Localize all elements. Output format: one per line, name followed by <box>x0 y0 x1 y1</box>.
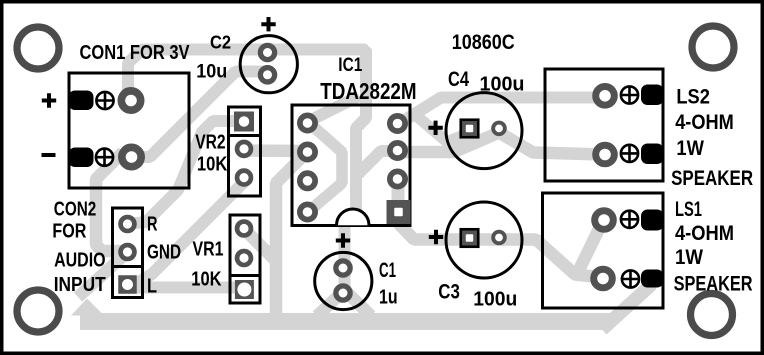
svg-text:10u: 10u <box>196 61 227 82</box>
wire VR2 top pad to CON2 R pad <box>127 121 242 224</box>
op-amp IC1 body <box>292 105 410 226</box>
svg-text:GND: GND <box>147 241 181 263</box>
speaker connector LS2 body <box>545 69 663 181</box>
LS2 top screw cross <box>621 86 638 103</box>
LS1 bottom black pad <box>641 270 664 288</box>
wire branch up to LS1 top pad <box>578 222 604 272</box>
CON1 plus hole pad <box>118 87 145 114</box>
wire IC1 right pad 1 to LS2 top pad <box>397 98 604 126</box>
speaker connector LS1 body <box>543 193 664 308</box>
connector CON1 body <box>69 73 189 188</box>
wire CON2 GND riser to ground band <box>78 253 127 298</box>
svg-text:LS1: LS1 <box>675 197 702 221</box>
LS1 pad top <box>591 207 617 233</box>
wire C1 tent right leg to ground band <box>345 290 372 316</box>
svg-text:1W: 1W <box>676 136 704 160</box>
capacitor C1 body <box>315 252 372 309</box>
mounting hole top-left <box>13 23 62 72</box>
VR1 pad middle <box>235 249 254 268</box>
LS2 bottom black pad <box>641 144 664 165</box>
CON2 pad R <box>118 215 137 234</box>
wire bottom ground band <box>80 313 612 330</box>
CON2 pad GND <box>118 243 137 262</box>
svg-text:SPEAKER: SPEAKER <box>671 166 753 190</box>
IC1 left pad 4 <box>297 202 318 223</box>
label plus C2 <box>261 17 275 31</box>
LS2 pad bottom <box>592 142 618 168</box>
CON1 minus screw cross <box>96 149 113 166</box>
svg-text:IC1: IC1 <box>338 55 362 76</box>
IC1 left pad 2 <box>297 142 318 163</box>
svg-text:TDA2822M: TDA2822M <box>320 78 416 104</box>
label plus C1 <box>336 233 350 247</box>
wire branch into C4 square pad <box>412 112 466 142</box>
svg-text:L: L <box>147 275 157 297</box>
wire CON2 L pad to VR1 square pad <box>131 282 236 294</box>
wire riser band end to LS1 bottom terminal <box>602 284 652 330</box>
CON2 square pad L <box>118 275 137 294</box>
IC1 right pad 2 <box>387 140 408 161</box>
potentiometer VR2 body <box>229 107 261 196</box>
IC1 left pad 3 <box>297 170 318 191</box>
IC1 left pad 1 <box>297 113 318 134</box>
capacitor C3 body <box>446 202 522 278</box>
CON1 minus hole pad <box>118 144 145 171</box>
connector CON2 body <box>113 208 143 298</box>
wire plus rail: CON1 plus pad to C2 top pad, down through IC1 to C1 <box>128 50 366 298</box>
mounting hole top-right <box>688 22 737 71</box>
LS1 top screw cross <box>621 211 638 228</box>
C2 pad top <box>258 43 278 63</box>
C3 ring pad <box>491 230 507 246</box>
wire CON1 minus pad down to CON2 GND pad <box>96 152 126 251</box>
potentiometer VR1 body <box>230 215 260 303</box>
wire IC1 square pad through C3 pads toward LS1 <box>399 212 603 278</box>
svg-text:CON2: CON2 <box>54 198 97 220</box>
label plus C3 <box>429 230 443 244</box>
IC1 right pad 1 <box>387 113 408 134</box>
mounting hole bottom-right <box>687 290 736 339</box>
svg-text:C2: C2 <box>210 33 231 53</box>
wire junction fillet riser-band <box>71 299 104 316</box>
label minus CON1 <box>42 153 56 157</box>
CON1 plus screw cross <box>96 92 113 109</box>
LS1 bottom screw cross <box>622 270 639 287</box>
svg-text:LS2: LS2 <box>676 85 710 109</box>
capacitor C4 body <box>446 93 522 169</box>
svg-text:C1: C1 <box>379 259 396 282</box>
svg-text:FOR: FOR <box>52 221 86 243</box>
label plus C4 <box>428 121 442 135</box>
wire C1 tent left leg to ground band <box>317 290 345 316</box>
C2 pad bottom <box>258 65 278 85</box>
LS1 pad bottom <box>590 266 616 292</box>
VR2 pad bottom <box>235 168 254 187</box>
svg-text:C4: C4 <box>448 68 469 91</box>
svg-text:1W: 1W <box>675 245 704 269</box>
VR1 pad top <box>235 219 254 238</box>
svg-text:4-OHM: 4-OHM <box>675 110 734 134</box>
label plus CON1 <box>42 93 56 107</box>
C4 square pad <box>461 120 479 138</box>
wire VR1 top pad diagonal <box>244 229 276 261</box>
LS2 top black pad <box>641 85 664 106</box>
wire IC1 left pads 1-4 bow <box>308 122 342 212</box>
C3 square pad <box>461 229 479 247</box>
VR2 square pad <box>234 112 254 132</box>
VR2 pad middle <box>235 140 254 159</box>
svg-text:10K: 10K <box>197 153 228 175</box>
svg-text:C3: C3 <box>438 281 460 304</box>
mounting hole bottom-left <box>13 286 62 335</box>
svg-text:4-OHM: 4-OHM <box>675 221 734 245</box>
wire IC1 left pad 2 down to VR1 junction and ground band <box>276 152 307 318</box>
svg-text:INPUT: INPUT <box>54 274 106 296</box>
C1 pad bottom <box>333 283 353 303</box>
wire IC1 right pad 3 to square pad <box>392 180 405 211</box>
IC1 square pad pin <box>387 200 411 224</box>
IC1 right pad 3 <box>387 169 408 190</box>
CON1 plus terminal black pad <box>69 91 94 111</box>
LS2 pad top <box>592 83 618 109</box>
svg-text:100u: 100u <box>480 73 525 96</box>
C1 pad top <box>333 258 353 278</box>
capacitor C2 body <box>240 36 297 93</box>
LS2 bottom screw cross <box>621 145 638 162</box>
wire IC1 right pad 2 through C4 ring pad to LS2 bottom pad <box>397 133 604 155</box>
svg-text:CON1 FOR 3V: CON1 FOR 3V <box>80 41 190 64</box>
svg-text:1u: 1u <box>379 285 398 308</box>
LS1 top black pad <box>641 210 664 231</box>
VR1 square pad <box>235 280 254 299</box>
wire branch of plus rail to IC1 right pad 2 <box>356 151 397 176</box>
svg-text:10860C: 10860C <box>452 30 515 54</box>
wire IC1 left pad 1 up to plus rail <box>309 96 359 121</box>
wire VR2 bottom pad to CON2 L pad <box>133 182 244 286</box>
IC1 notch <box>337 209 370 225</box>
svg-text:VR1: VR1 <box>193 239 224 261</box>
svg-text:AUDIO: AUDIO <box>54 250 106 272</box>
svg-text:VR2: VR2 <box>195 132 225 154</box>
VR1 divider <box>230 274 260 277</box>
C4 ring pad <box>491 121 507 137</box>
wire CON1 minus pad to C2 bottom pad <box>131 72 268 158</box>
CON1 minus terminal black pad <box>69 148 94 168</box>
svg-text:10K: 10K <box>191 269 222 291</box>
svg-text:SPEAKER: SPEAKER <box>674 271 753 295</box>
svg-text:R: R <box>147 213 158 235</box>
VR2 divider <box>229 134 261 137</box>
svg-text:100u: 100u <box>473 287 517 310</box>
CON2 divider <box>113 265 143 268</box>
wire VR2 wiper to IC1 left pad 2 <box>244 144 307 157</box>
